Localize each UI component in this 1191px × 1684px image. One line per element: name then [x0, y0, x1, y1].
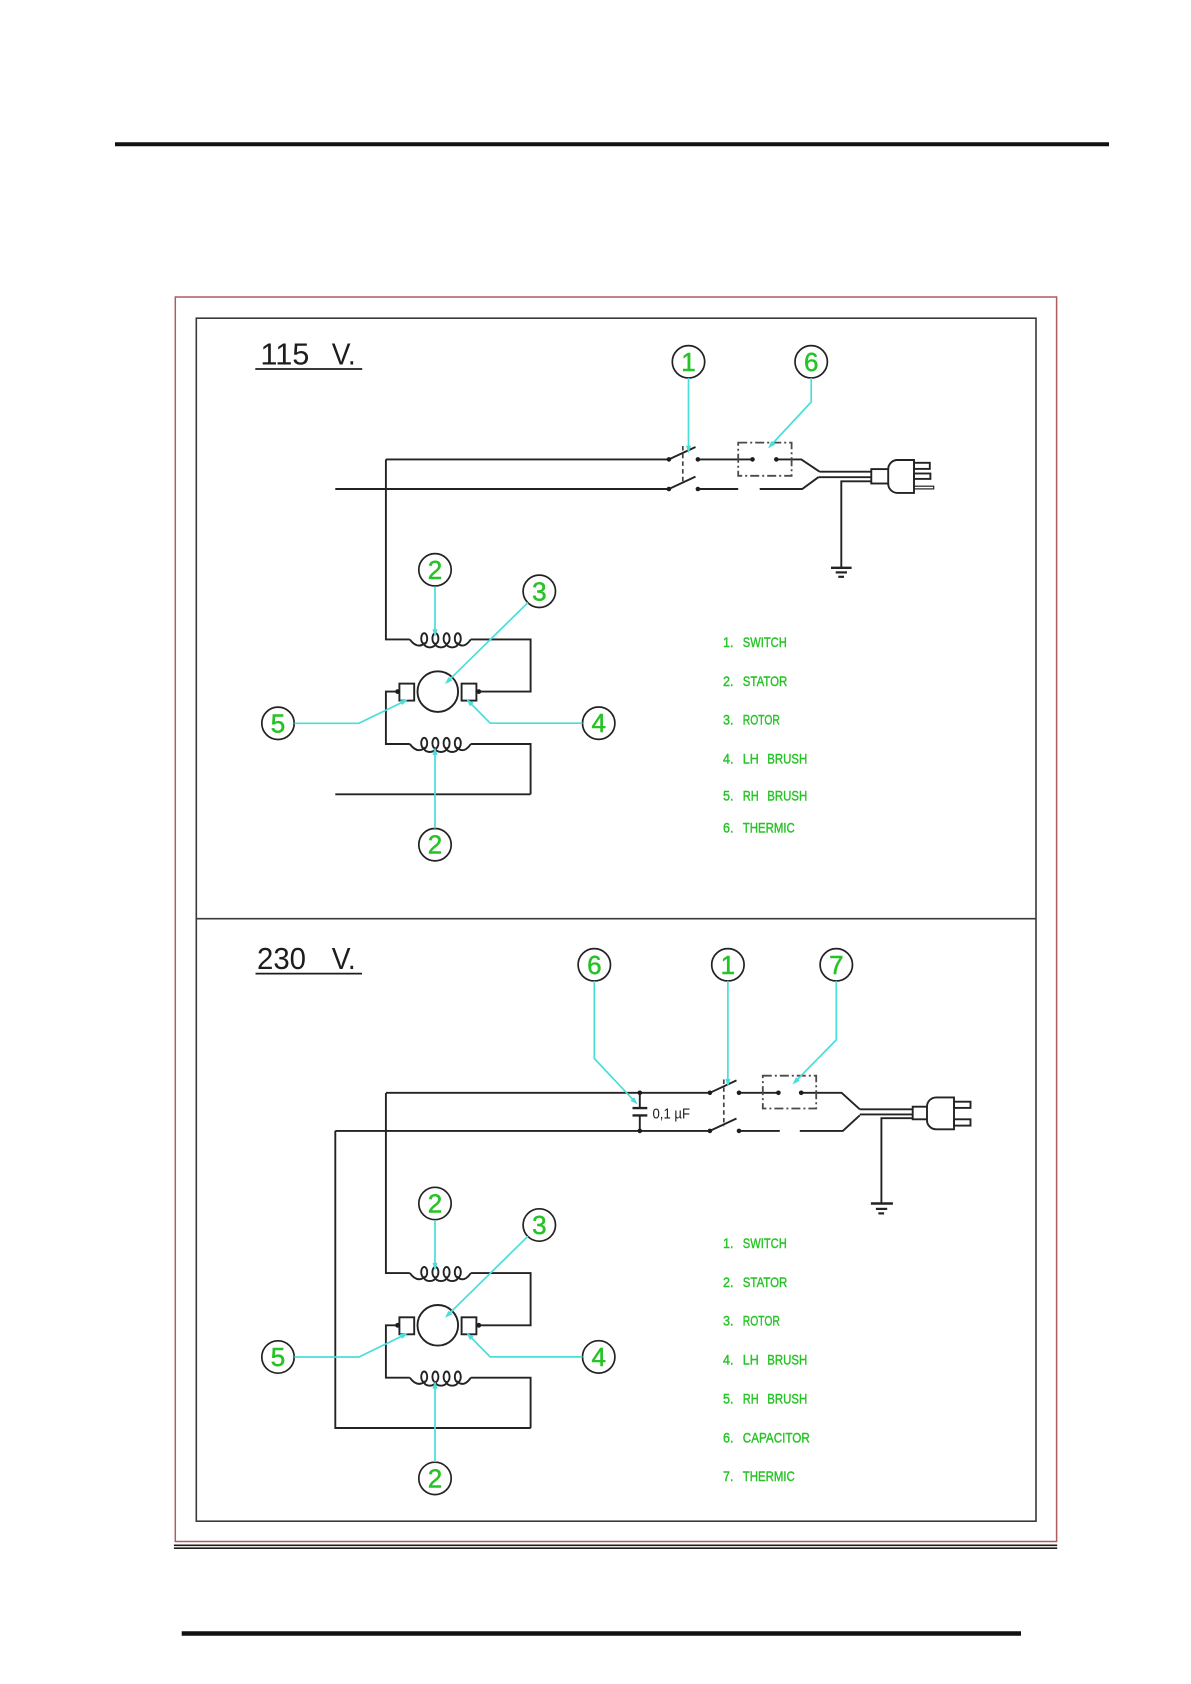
svg-text:STATOR: STATOR	[743, 673, 788, 689]
svg-text:V.: V.	[332, 941, 356, 976]
svg-text:SWITCH: SWITCH	[743, 1235, 787, 1251]
svg-text:ROTOR: ROTOR	[743, 1313, 780, 1329]
svg-text:LH: LH	[743, 1352, 759, 1368]
svg-text:4.: 4.	[723, 1352, 734, 1368]
svg-text:BRUSH: BRUSH	[767, 1390, 807, 1406]
svg-text:2.: 2.	[723, 673, 734, 689]
svg-text:RH: RH	[743, 788, 759, 804]
svg-text:6.: 6.	[723, 1429, 734, 1445]
svg-text:THERMIC: THERMIC	[743, 819, 795, 835]
svg-text:LH: LH	[743, 751, 759, 767]
svg-text:5.: 5.	[723, 788, 734, 804]
svg-text:CAPACITOR: CAPACITOR	[743, 1429, 810, 1445]
svg-text:5.: 5.	[723, 1390, 734, 1406]
svg-text:7.: 7.	[723, 1468, 734, 1484]
svg-text:THERMIC: THERMIC	[743, 1468, 795, 1484]
svg-text:V.: V.	[332, 336, 356, 371]
svg-text:2.: 2.	[723, 1274, 734, 1290]
svg-text:1.: 1.	[723, 634, 734, 650]
svg-text:1: 1	[721, 950, 735, 980]
svg-text:115: 115	[260, 336, 309, 371]
svg-text:RH: RH	[743, 1390, 759, 1406]
svg-text:7: 7	[829, 950, 843, 980]
svg-text:6.: 6.	[723, 819, 734, 835]
svg-text:1.: 1.	[723, 1235, 734, 1251]
svg-text:6: 6	[804, 347, 818, 377]
svg-text:1: 1	[681, 347, 695, 377]
svg-text:6: 6	[587, 950, 601, 980]
svg-text:BRUSH: BRUSH	[767, 788, 807, 804]
svg-text:3.: 3.	[723, 712, 734, 728]
svg-text:4.: 4.	[723, 751, 734, 767]
svg-text:BRUSH: BRUSH	[767, 1352, 807, 1368]
svg-text:230: 230	[257, 941, 306, 976]
svg-text:3.: 3.	[723, 1313, 734, 1329]
svg-text:ROTOR: ROTOR	[743, 712, 780, 728]
svg-text:SWITCH: SWITCH	[743, 634, 787, 650]
svg-text:BRUSH: BRUSH	[767, 751, 807, 767]
svg-text:0,1 µF: 0,1 µF	[653, 1105, 691, 1122]
svg-text:STATOR: STATOR	[743, 1274, 788, 1290]
